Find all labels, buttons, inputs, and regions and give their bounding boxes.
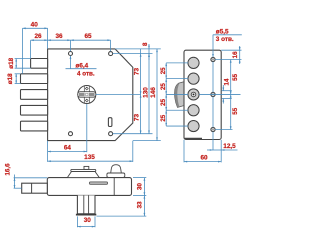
dim 73 (lower, front view right) (96, 95, 142, 134)
screw hole column line (side view) (212, 62, 214, 150)
latch lever (side view left edge) (175, 82, 184, 108)
mounting hole bottom-right ø6.4 (109, 132, 113, 136)
bottom view body (47, 178, 131, 196)
dim 33 (bottom view right, escutcheon) (97, 195, 147, 216)
dim 36 (top) (48, 33, 71, 51)
svg-text:146: 146 (150, 87, 157, 98)
front view lock body (48, 49, 133, 141)
bolt circle 1 (side view) (188, 57, 199, 68)
dim 30 (bottom view right, body height) (133, 178, 146, 196)
label ø5,5 3 отв. with leader (212, 28, 242, 57)
mounting hole top-left ø6.4 (69, 52, 73, 56)
bolt B4 (front view) (21, 105, 48, 115)
bottom view divider line (113, 178, 115, 196)
slot (front view lower right) (108, 118, 112, 127)
svg-text:30: 30 (137, 183, 144, 190)
svg-text:25: 25 (160, 114, 167, 121)
svg-text:60: 60 (200, 154, 208, 161)
dim 146 (front view right) (133, 49, 161, 141)
svg-text:73: 73 (134, 114, 141, 122)
svg-text:40: 40 (31, 22, 39, 29)
keyhole axis line (side view, through circle 3) (199, 93, 240, 95)
mounting hole top-right ø6.4 (109, 52, 113, 56)
strike lip on bottom edge (185, 138, 202, 140)
screw hole 3 ø5,5 (side view) (211, 127, 215, 131)
svg-text:135: 135 (84, 154, 95, 161)
dim 73 (upper, front view right) (134, 49, 142, 134)
bolt B2 (front view) (21, 74, 48, 84)
bolt shaft (bottom view) (22, 183, 48, 193)
svg-text:8: 8 (142, 42, 149, 46)
bolt B5 (front view) (21, 121, 48, 131)
dim 135 (bottom of front view) (48, 141, 133, 162)
dim 55 (lower, side view right) (215, 94, 239, 129)
dim 65 (top) (71, 33, 111, 51)
screw hole 1 ø5,5 (side view) (211, 57, 215, 61)
svg-text:ø5,5: ø5,5 (216, 28, 229, 35)
dim 14 (side view right middle) (222, 78, 232, 103)
dim 25 x4 (left of side view) (160, 63, 188, 126)
svg-text:33: 33 (137, 201, 144, 208)
bolt circle 2 (side view) (188, 73, 199, 84)
screw hole 2 ø5,5 (side view) (211, 92, 215, 96)
svg-text:25: 25 (160, 98, 167, 105)
cylinder boss (bottom view top) (107, 165, 125, 178)
mounting hole bottom-left ø6.4 (69, 132, 73, 136)
dim 60 (side view bottom) (184, 140, 221, 163)
slot pill (bottom view) (89, 182, 107, 185)
svg-text:130: 130 (142, 87, 149, 98)
bolt B3 (front view) (21, 90, 48, 100)
cover plate bump (bottom view top) (67, 166, 99, 177)
svg-text:ø6,4: ø6,4 (76, 62, 89, 69)
dim ø18 (bolt B2) (7, 73, 20, 84)
dim ø18 (bolt B1) (8, 57, 31, 68)
svg-text:26: 26 (34, 33, 42, 40)
dim 64 (bottom of front view) (48, 104, 87, 162)
svg-text:36: 36 (55, 33, 63, 40)
dim 12,5 (side view bottom right) (207, 140, 238, 163)
svg-text:55: 55 (232, 73, 239, 80)
svg-text:25: 25 (160, 67, 167, 74)
dim 16,6 (bottom view left) (5, 163, 48, 188)
svg-text:30: 30 (84, 217, 92, 224)
bolt circle 4 (side view) (188, 105, 199, 116)
svg-text:12,5: 12,5 (223, 143, 236, 150)
bolt B1 (top small bolt, front view) (31, 59, 48, 69)
keyway (front view, double-bit key hole) (78, 86, 96, 104)
svg-text:25: 25 (160, 83, 167, 90)
dim 30 (bottom view, escutcheon width) (77, 216, 95, 227)
svg-text:ø18: ø18 (8, 57, 15, 68)
svg-text:14: 14 (224, 78, 231, 85)
label ø6,4 4 отв. with leader (66, 56, 97, 78)
dim 26 (top) (31, 33, 48, 58)
bolt circle 3 with key hole (side view) (188, 89, 199, 100)
svg-text:73: 73 (134, 68, 141, 76)
svg-text:64: 64 (64, 144, 72, 151)
side view plate (184, 50, 221, 139)
svg-text:16: 16 (232, 51, 239, 58)
dim 55 (upper, side view right) (230, 60, 239, 130)
svg-text:55: 55 (232, 107, 239, 114)
bolt circle 5 (side view) (188, 120, 199, 131)
svg-text:3 отв.: 3 отв. (216, 36, 234, 43)
svg-text:65: 65 (84, 33, 92, 40)
dim 40 (top row) (23, 22, 48, 74)
dim 130 (front view right) (113, 54, 153, 134)
escutcheon (bottom view hanging part) (76, 195, 96, 214)
svg-text:4 отв.: 4 отв. (77, 71, 95, 78)
dim 16 (side view top right) (215, 46, 241, 64)
dim 8 (top right small) (113, 42, 161, 60)
svg-text:ø18: ø18 (7, 73, 14, 84)
svg-text:16,6: 16,6 (5, 163, 12, 176)
